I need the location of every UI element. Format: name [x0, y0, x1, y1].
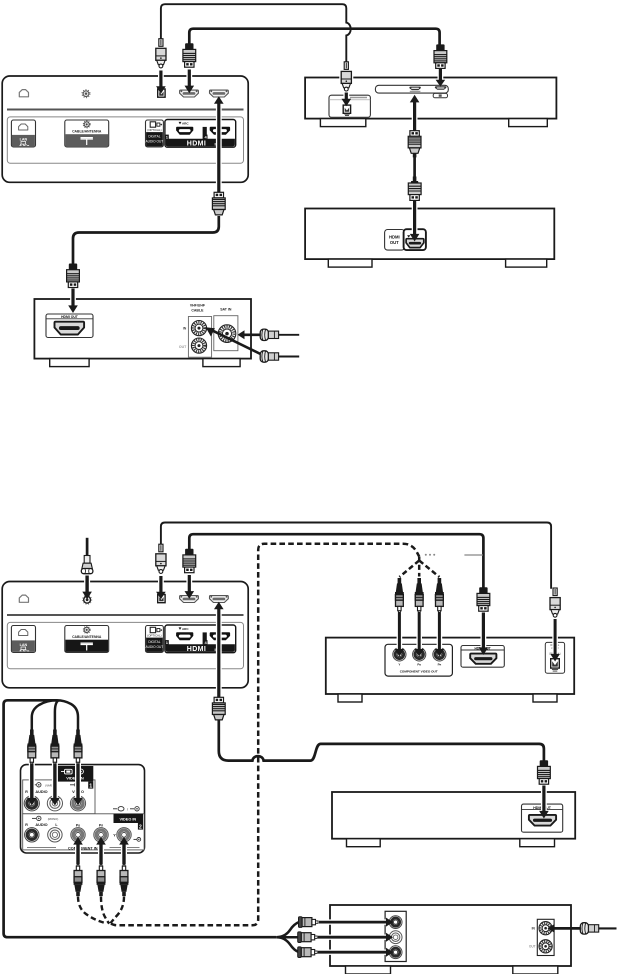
TV panel 1 divider line: [7, 109, 244, 111]
arrow component Y into jack: [397, 613, 403, 650]
svg-text:CABLE/ANTENNA: CABLE/ANTENNA: [72, 635, 102, 639]
audio system optical port: [343, 105, 350, 113]
svg-text:CABLE/ANTENNA: CABLE/ANTENNA: [72, 130, 102, 134]
cable box VHF/UHF jack plate: [188, 317, 211, 358]
svg-text:(MONO): (MONO): [48, 817, 59, 821]
antenna plug into TV 2: [84, 556, 90, 564]
arrow into VCR jack 1: [319, 919, 387, 924]
TV panel 1 HDMI port 1: [180, 90, 199, 97]
svg-text:PR: PR: [99, 824, 103, 828]
svg-text:PB: PB: [76, 824, 80, 828]
component cable continuation dots: [425, 554, 427, 556]
audio system optical-in box: [329, 95, 370, 117]
TV panel 1 antenna socket icon: [83, 91, 89, 97]
TV side panel outline: [21, 765, 145, 853]
svg-text:Y: Y: [113, 833, 116, 837]
COMPONENT IN label: [27, 847, 56, 849]
row 1 jack R: [24, 796, 39, 811]
DVR HDMI OUT port: [461, 646, 504, 668]
arrow into VCR jack 3: [318, 950, 387, 955]
HDMI device HDMI OUT port: [522, 804, 563, 832]
arrow optical into DVR: [552, 619, 558, 655]
svg-text:ARC: ARC: [182, 627, 189, 631]
TV panel 2 CABLE/ANTENNA box: [65, 626, 109, 653]
svg-text:VHF/UHF: VHF/UHF: [190, 304, 206, 308]
row 2 jack Pb: [71, 828, 85, 842]
TV panel 1 connector bay: [7, 117, 243, 163]
coax jack VHF/UHF OUT: [191, 338, 206, 353]
audio system (AV receiver) box: [305, 78, 556, 119]
composite plug 1 (to VCR): [299, 917, 303, 928]
row 2 jack R: [25, 828, 39, 842]
arrow HDMI into DVR: [480, 613, 486, 649]
component video cable dashed run (wire): [111, 544, 419, 926]
svg-text:(OPTICAL): (OPTICAL): [147, 633, 161, 637]
optical plug into TV 2: [159, 544, 163, 552]
coax cable upper (wire): [278, 334, 299, 336]
arrow component Pb into jack: [416, 613, 422, 650]
svg-text:AUDIO OUT: AUDIO OUT: [146, 645, 164, 649]
arrow composite VIDEO: [75, 764, 81, 799]
arrow optical into audio system: [343, 93, 349, 100]
arrow component Pr into jack: [437, 613, 443, 650]
arrow up into TV 1 HDMI-2: [216, 103, 222, 194]
composite cable merge at TV (wires): [32, 700, 78, 731]
audio system HDMI port A: [409, 87, 420, 91]
component dashed tails (wires): [78, 897, 124, 924]
HDMI cable TV2-HDMI2 to HDMI device (wire): [219, 718, 544, 762]
arrow antenna into TV 2: [84, 576, 90, 593]
component plug up Pr: [100, 865, 102, 867]
HDMI plug into audio system port B: [436, 44, 444, 50]
svg-text:OUT: OUT: [179, 345, 187, 349]
optical cable TV to DVR (wire): [161, 523, 551, 589]
TV panel 2 DIGITAL AUDIO OUT box: [146, 626, 164, 653]
VCR jack video: [389, 916, 402, 929]
DVR component jack group box: [385, 644, 452, 676]
TV panel 1 home icon: [19, 90, 28, 97]
audio system HDMI strip: [375, 85, 448, 93]
composite cable long run (wire): [4, 700, 277, 937]
HDMI plug into HDMI device: [540, 760, 548, 766]
svg-text:DIGITAL: DIGITAL: [148, 640, 160, 644]
arrow component into Y: [121, 844, 127, 864]
arrow into VCR jack 2: [318, 935, 387, 940]
arrow optical into TV 1: [158, 71, 164, 88]
component plug Pb: [417, 578, 421, 584]
svg-text:VIDEO IN: VIDEO IN: [119, 818, 136, 822]
TV panel 2 antenna socket (plugged): [83, 595, 92, 604]
HDMI interconnect cable (wire): [413, 155, 416, 178]
TV rear panel 1 outline: [2, 76, 248, 182]
row 2 jack L: [48, 828, 62, 842]
cable/satellite box (section 1): [34, 299, 251, 359]
VCR coax jack OUT: [539, 940, 552, 953]
svg-text:HDMI: HDMI: [187, 141, 207, 148]
svg-text:OUT: OUT: [529, 945, 536, 949]
TV panel 2 LAN box: [11, 626, 35, 653]
arrow HDMI into HDMI device: [541, 786, 547, 812]
BD player HDMI OUT label+port: [385, 230, 405, 251]
svg-text:AUDIO: AUDIO: [35, 790, 47, 794]
HDMI cable TV1-HDMI2 to cable box (wire): [73, 216, 219, 265]
composite plug L into TV: [53, 730, 57, 736]
svg-text:AUDIO: AUDIO: [35, 823, 47, 827]
arrow HDMI into audio system port B: [437, 69, 443, 81]
row 1 jack VIDEO: [70, 796, 85, 811]
component cable fan to plugs (wires): [399, 557, 439, 578]
VIDEO IN 1 label: [58, 766, 94, 782]
svg-text:HDMI OUT: HDMI OUT: [61, 315, 79, 319]
cable box SAT jack plate: [214, 316, 238, 351]
composite plug R into TV: [30, 730, 34, 736]
VCR jack audio R: [389, 946, 402, 959]
TV panel 2 home icon: [19, 595, 28, 602]
svg-text:1: 1: [89, 784, 92, 790]
audio system port B label box: [433, 93, 447, 97]
HDMI interconnect lower plug: [413, 177, 417, 182]
coax diagonal cable to VHF IN (wire): [213, 331, 262, 355]
TV panel 2 connector bay: [7, 622, 243, 668]
svg-text:IN: IN: [183, 326, 187, 330]
arrow up into audio system port A: [412, 101, 418, 131]
TV rear panel 2 outline: [2, 582, 248, 688]
component plug Pr: [438, 578, 442, 584]
TV panel 1 HDMI port 2: [210, 90, 229, 97]
HDMI cable TV to DVR (wire): [189, 534, 483, 588]
HDMI plug into TV 1 HDMI-1: [185, 43, 193, 49]
VIDEO IN 2 icons: [113, 808, 117, 810]
svg-text:LAN: LAN: [20, 137, 28, 141]
arrow up into TV 2 HDMI-2: [216, 608, 222, 698]
HDMI-out device (section 2 middle): [332, 792, 575, 839]
DVR optical out port: [551, 659, 560, 668]
svg-text:CABLE: CABLE: [191, 309, 204, 313]
optical plug into TV 1: [159, 39, 163, 47]
row 2 icons: [32, 817, 36, 819]
TV panel 2 HDMI port 1: [180, 596, 199, 603]
coax plug lower (antenna feed): [260, 351, 268, 362]
composite plug VIDEO into TV: [76, 730, 80, 736]
BD player box (section 1): [305, 209, 554, 260]
arrow HDMI into BD player: [412, 201, 418, 235]
arrow HDMI into TV 2 HDMI-1: [186, 575, 192, 592]
HDMI cable TV to audio system (wire): [189, 29, 439, 45]
VCR jack audio L: [389, 931, 402, 944]
arrow HDMI into cable box: [70, 289, 76, 307]
svg-text:COMPONENT VIDEO OUT: COMPONENT VIDEO OUT: [400, 669, 438, 673]
svg-text:R: R: [25, 790, 28, 794]
svg-text:COMPONENT IN: COMPONENT IN: [68, 846, 98, 850]
VCR device (section 2 bottom): [330, 905, 571, 966]
svg-text:(VAR): (VAR): [45, 783, 52, 787]
HDMI interconnect upper plug: [410, 131, 419, 137]
row 1 box: [23, 780, 95, 814]
VCR antenna cable (wire): [599, 927, 617, 929]
antenna cable stub (wire): [86, 538, 89, 557]
arrowhead into VHF IN: [206, 327, 215, 336]
TV panel 2 HDMI port 2: [210, 596, 229, 603]
component plug up Pb: [77, 865, 79, 867]
composite plug 3 (to VCR): [298, 947, 302, 958]
composite cable fork (wires): [276, 922, 299, 952]
arrow optical into TV 2: [158, 576, 164, 593]
TV panel 1 optical port: [158, 89, 165, 97]
svg-text:OUT: OUT: [390, 240, 399, 245]
HDMI plug into DVR: [479, 587, 487, 593]
coax cable lower (wire): [278, 356, 299, 358]
svg-text:LAN: LAN: [20, 643, 28, 647]
arrow HDMI into TV 1 HDMI-1: [186, 70, 192, 87]
svg-text:2: 2: [139, 825, 142, 831]
VIDEO IN 2 label: [114, 814, 144, 823]
DVR component jack Pr: [433, 648, 446, 661]
svg-text:AUDIO OUT: AUDIO OUT: [146, 140, 164, 144]
HDMI plug into TV 2 HDMI-1: [185, 549, 193, 555]
optical plug into audio system: [339, 63, 353, 90]
VCR AV jack plate: [385, 911, 406, 961]
row 2 jack Y: [117, 828, 131, 842]
coax jack SAT IN: [218, 325, 236, 343]
component plug Y: [398, 578, 402, 584]
TV panel 1 HDMI box: [165, 120, 236, 148]
svg-text:HDMI: HDMI: [187, 646, 207, 653]
DVR/cable box with component out (section 2): [326, 638, 574, 694]
HDMI plug below TV 2: [214, 697, 223, 703]
DVR component jack Pb: [413, 648, 426, 661]
row 1 icons: [32, 784, 36, 786]
TV panel 2 divider line: [7, 614, 244, 616]
svg-text:SAT IN: SAT IN: [220, 307, 232, 311]
svg-text:R: R: [25, 823, 28, 827]
row 2 box: [23, 814, 144, 850]
svg-text:Y: Y: [398, 663, 400, 667]
optical plug into DVR: [553, 588, 557, 596]
audio system HDMI port B: [435, 86, 446, 90]
coax plug upper (antenna feed): [260, 329, 268, 340]
component plug up Y: [123, 865, 125, 867]
gray reference line: [464, 554, 482, 556]
optical cable TV to audio system (wire): [161, 4, 351, 64]
TV panel 2 optical port: [158, 595, 165, 603]
DVR component jack Y: [393, 648, 406, 661]
row 1 jack L: [47, 796, 62, 811]
arrow coax into VCR IN: [554, 927, 583, 930]
composite plug 2 (to VCR): [298, 932, 302, 943]
icon right of Y: [134, 838, 137, 840]
svg-text:DIGITAL: DIGITAL: [148, 135, 160, 139]
VCR coax jack IN: [539, 922, 552, 935]
row 2 jack Pr: [94, 828, 108, 842]
svg-text:ARC: ARC: [182, 122, 189, 126]
arrow component into Pb: [75, 844, 81, 864]
arrow composite R: [29, 764, 35, 799]
HDMI plug below TV 1: [214, 192, 223, 198]
arrow component into Pr: [98, 844, 104, 864]
svg-text:(OPTICAL): (OPTICAL): [147, 128, 161, 132]
VCR coax plate: [537, 919, 554, 955]
DVR optical out box: [545, 642, 564, 673]
cable box HDMI OUT port: [46, 314, 93, 338]
TV panel 1 DIGITAL AUDIO OUT box: [146, 120, 164, 147]
coax jack VHF/UHF IN: [191, 321, 206, 336]
HDMI plug into cable box: [69, 264, 77, 270]
TV panel 2 HDMI box: [165, 625, 236, 653]
coax plug into VCR: [580, 923, 588, 934]
arrow coax into SAT IN: [244, 333, 263, 336]
TV panel 1 CABLE/ANTENNA box: [65, 120, 109, 147]
TV panel 1 LAN box: [11, 120, 35, 147]
arrow composite L: [52, 764, 58, 799]
